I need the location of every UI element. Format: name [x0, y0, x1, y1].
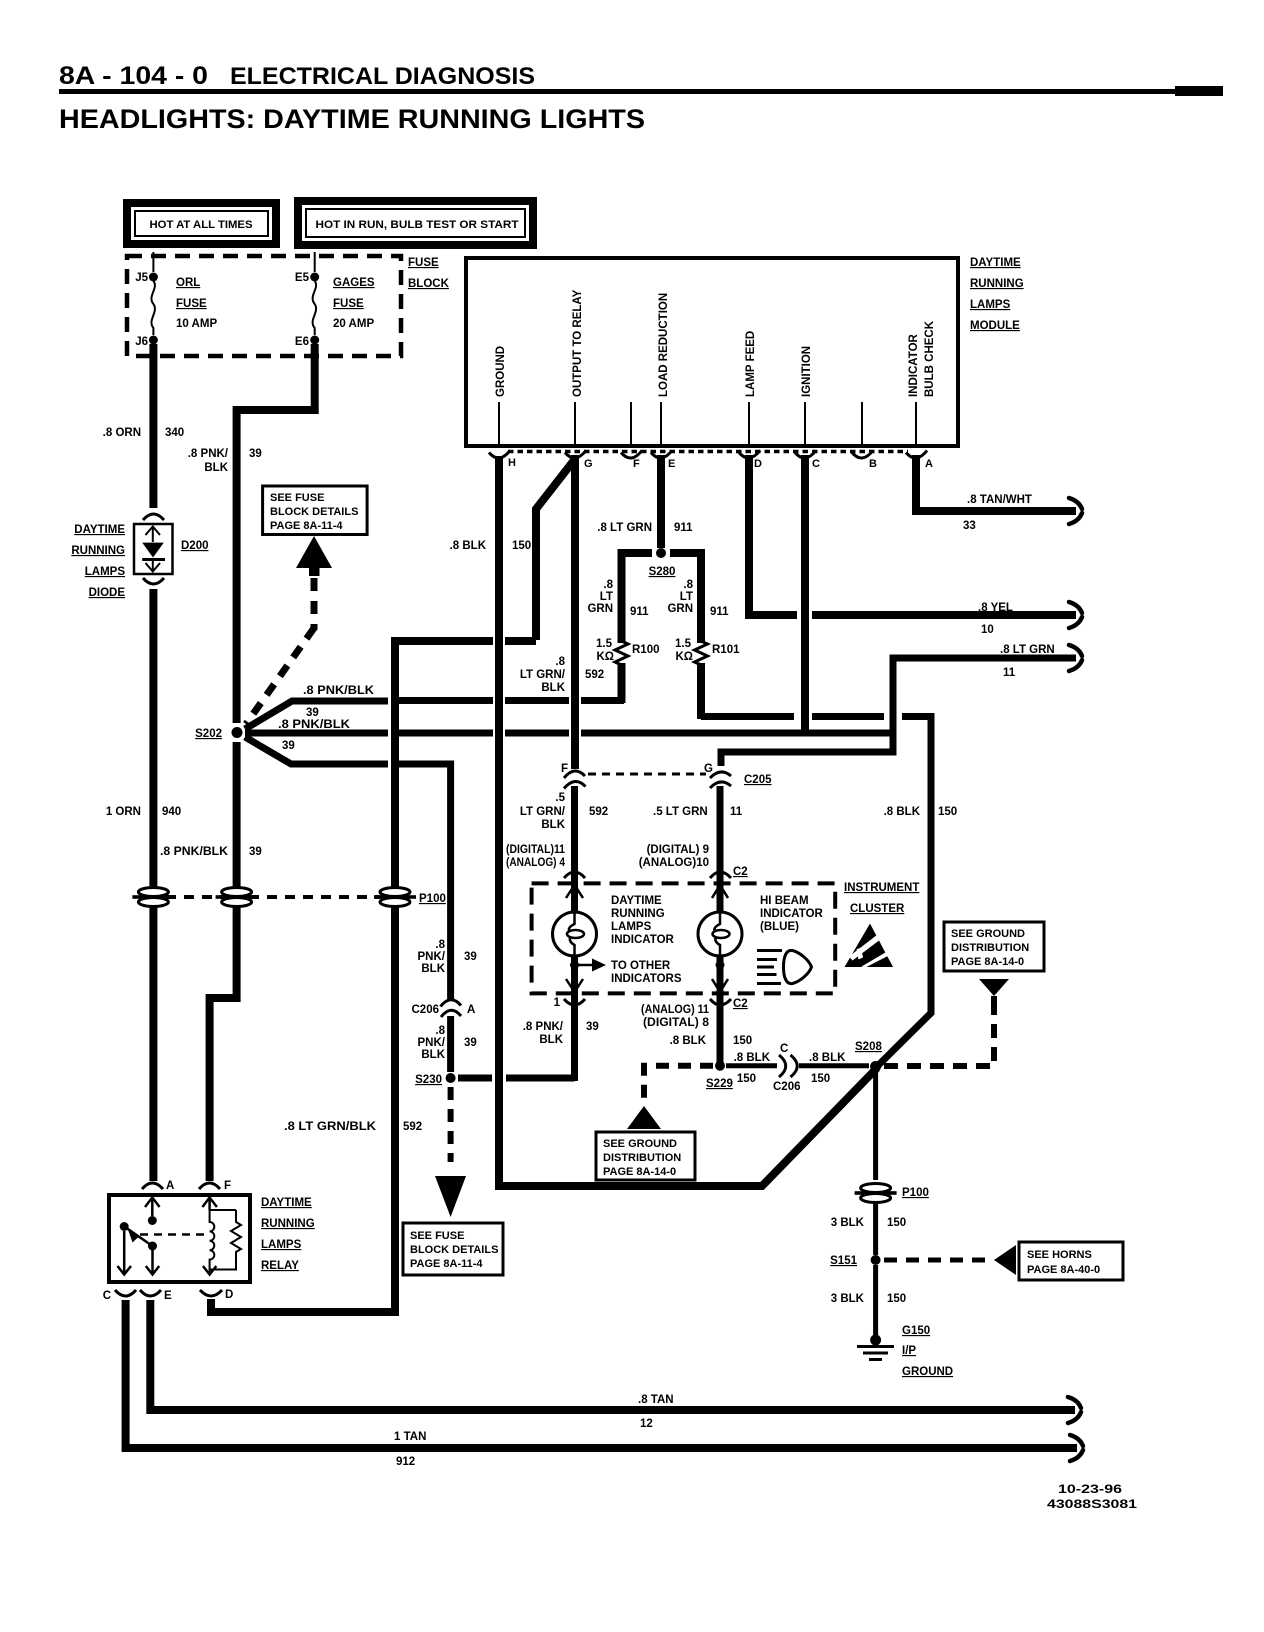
- svg-text:D200: D200: [181, 540, 209, 552]
- svg-text:PAGE 8A-40-0: PAGE 8A-40-0: [1027, 1264, 1100, 1276]
- svg-text:HI BEAM: HI BEAM: [760, 895, 809, 907]
- svg-text:PNK/: PNK/: [418, 951, 446, 963]
- svg-text:1 TAN: 1 TAN: [394, 1431, 426, 1443]
- svg-text:C2: C2: [733, 866, 748, 878]
- svg-text:.5 LT GRN: .5 LT GRN: [653, 806, 708, 818]
- svg-text:150: 150: [938, 806, 957, 818]
- svg-text:DISTRIBUTION: DISTRIBUTION: [603, 1152, 681, 1164]
- svg-text:10: 10: [981, 624, 994, 636]
- svg-text:LT GRN/: LT GRN/: [520, 806, 566, 818]
- svg-text:INDICATOR: INDICATOR: [611, 934, 675, 946]
- svg-text:MODULE: MODULE: [970, 320, 1020, 332]
- svg-text:39: 39: [586, 1021, 599, 1033]
- svg-text:20 AMP: 20 AMP: [333, 318, 374, 330]
- svg-text:S208: S208: [855, 1041, 882, 1053]
- svg-text:DAYTIME: DAYTIME: [74, 524, 125, 536]
- svg-text:S280: S280: [649, 566, 676, 578]
- svg-text:33: 33: [963, 520, 976, 532]
- svg-text:E: E: [164, 1290, 172, 1302]
- svg-text:F: F: [633, 458, 640, 470]
- svg-text:J5: J5: [135, 272, 148, 284]
- svg-text:150: 150: [733, 1035, 752, 1047]
- svg-text:592: 592: [403, 1121, 422, 1133]
- svg-text:.8 PNK/BLK: .8 PNK/BLK: [278, 719, 351, 731]
- svg-text:ELECTRICAL DIAGNOSIS: ELECTRICAL DIAGNOSIS: [230, 63, 535, 90]
- svg-text:(ANALOG) 4: (ANALOG) 4: [506, 857, 566, 869]
- svg-text:CLUSTER: CLUSTER: [850, 903, 905, 915]
- svg-text:LT: LT: [680, 591, 693, 603]
- svg-text:.8 PNK/BLK: .8 PNK/BLK: [160, 846, 229, 858]
- svg-text:DIODE: DIODE: [89, 587, 126, 599]
- svg-text:IGNITION: IGNITION: [801, 346, 813, 397]
- svg-text:DISTRIBUTION: DISTRIBUTION: [951, 942, 1029, 954]
- svg-text:.8 BLK: .8 BLK: [450, 540, 487, 552]
- svg-text:G: G: [704, 763, 713, 775]
- svg-text:592: 592: [589, 806, 608, 818]
- svg-text:LOAD REDUCTION: LOAD REDUCTION: [658, 293, 670, 397]
- svg-text:PAGE 8A-14-0: PAGE 8A-14-0: [603, 1166, 676, 1178]
- svg-text:BLK: BLK: [421, 1049, 445, 1061]
- svg-text:GRN: GRN: [667, 603, 693, 615]
- svg-text:HOT IN RUN, BULB TEST OR START: HOT IN RUN, BULB TEST OR START: [316, 219, 519, 231]
- svg-text:E: E: [668, 458, 675, 470]
- svg-text:ORL: ORL: [176, 277, 200, 289]
- svg-text:1 ORN: 1 ORN: [106, 806, 141, 818]
- svg-text:INDICATOR: INDICATOR: [908, 333, 920, 397]
- svg-text:.8 TAN: .8 TAN: [638, 1394, 674, 1406]
- svg-text:B: B: [869, 458, 877, 470]
- svg-text:RUNNING: RUNNING: [261, 1218, 315, 1230]
- svg-text:F: F: [224, 1180, 231, 1192]
- svg-text:150: 150: [887, 1217, 906, 1229]
- svg-text:BLK: BLK: [421, 963, 445, 975]
- svg-text:(DIGITAL)11: (DIGITAL)11: [506, 844, 566, 856]
- svg-text:P100: P100: [419, 893, 446, 905]
- svg-text:A: A: [467, 1004, 475, 1016]
- svg-text:39: 39: [464, 951, 477, 963]
- svg-text:BLK: BLK: [541, 682, 565, 694]
- svg-text:I/P: I/P: [902, 1345, 916, 1357]
- svg-text:10-23-96: 10-23-96: [1058, 1482, 1122, 1496]
- svg-text:RUNNING: RUNNING: [71, 545, 125, 557]
- svg-text:LAMP FEED: LAMP FEED: [745, 331, 757, 397]
- svg-text:BLK: BLK: [541, 819, 565, 831]
- svg-text:HEADLIGHTS: DAYTIME RUNNING LI: HEADLIGHTS: DAYTIME RUNNING LIGHTS: [59, 104, 645, 134]
- svg-text:39: 39: [306, 707, 319, 719]
- svg-text:E6: E6: [295, 336, 309, 348]
- svg-text:GROUND: GROUND: [902, 1366, 953, 1378]
- svg-text:11: 11: [730, 806, 743, 818]
- svg-text:LAMPS: LAMPS: [970, 299, 1011, 311]
- svg-text:.8 BLK: .8 BLK: [734, 1052, 771, 1064]
- svg-text:R101: R101: [712, 644, 740, 656]
- svg-text:LAMPS: LAMPS: [261, 1239, 302, 1251]
- svg-text:(ANALOG)10: (ANALOG)10: [639, 857, 709, 869]
- svg-text:911: 911: [674, 522, 693, 534]
- svg-text:C206: C206: [773, 1081, 801, 1093]
- svg-text:.8 TAN/WHT: .8 TAN/WHT: [967, 494, 1032, 506]
- svg-text:SEE GROUND: SEE GROUND: [951, 928, 1025, 940]
- svg-text:PAGE 8A-11-4: PAGE 8A-11-4: [270, 520, 343, 532]
- svg-text:150: 150: [512, 540, 531, 552]
- svg-text:940: 940: [162, 806, 181, 818]
- svg-text:.8: .8: [683, 579, 693, 591]
- svg-text:D: D: [225, 1289, 233, 1301]
- svg-text:11: 11: [1003, 667, 1016, 679]
- svg-text:BLK: BLK: [204, 462, 228, 474]
- svg-text:GROUND: GROUND: [495, 346, 507, 397]
- svg-text:PAGE 8A-14-0: PAGE 8A-14-0: [951, 956, 1024, 968]
- svg-text:KΩ: KΩ: [675, 651, 693, 663]
- svg-text:PAGE 8A-11-4: PAGE 8A-11-4: [410, 1258, 483, 1270]
- svg-text:39: 39: [464, 1037, 477, 1049]
- svg-text:C: C: [812, 458, 820, 470]
- svg-text:FUSE: FUSE: [176, 298, 207, 310]
- svg-text:RUNNING: RUNNING: [611, 908, 665, 920]
- svg-text:D: D: [754, 458, 762, 470]
- svg-text:PNK/: PNK/: [418, 1037, 446, 1049]
- svg-text:592: 592: [585, 669, 604, 681]
- svg-text:RELAY: RELAY: [261, 1260, 299, 1272]
- svg-text:GAGES: GAGES: [333, 277, 375, 289]
- svg-text:BLOCK DETAILS: BLOCK DETAILS: [270, 506, 358, 518]
- svg-text:150: 150: [737, 1073, 756, 1085]
- svg-text:F: F: [561, 763, 568, 775]
- svg-text:RUNNING: RUNNING: [970, 278, 1024, 290]
- svg-text:12: 12: [640, 1418, 653, 1430]
- svg-text:LT: LT: [600, 591, 613, 603]
- svg-text:.8 LT GRN/BLK: .8 LT GRN/BLK: [284, 1121, 377, 1133]
- svg-text:BLOCK DETAILS: BLOCK DETAILS: [410, 1244, 498, 1256]
- svg-text:(ANALOG) 11: (ANALOG) 11: [641, 1004, 710, 1016]
- svg-text:.8: .8: [435, 1025, 445, 1037]
- svg-text:C206: C206: [412, 1004, 440, 1016]
- svg-text:.5: .5: [555, 792, 565, 804]
- svg-text:A: A: [166, 1180, 174, 1192]
- svg-text:R100: R100: [632, 644, 660, 656]
- svg-text:OUTPUT TO RELAY: OUTPUT TO RELAY: [572, 289, 584, 397]
- svg-text:SEE FUSE: SEE FUSE: [270, 492, 324, 504]
- svg-text:INSTRUMENT: INSTRUMENT: [844, 882, 919, 894]
- svg-text:(DIGITAL) 9: (DIGITAL) 9: [647, 844, 709, 856]
- svg-text:10 AMP: 10 AMP: [176, 318, 217, 330]
- svg-text:C2: C2: [733, 998, 748, 1010]
- svg-text:HOT AT ALL TIMES: HOT AT ALL TIMES: [150, 219, 253, 231]
- svg-text:H: H: [508, 457, 516, 469]
- svg-text:.8 ORN: .8 ORN: [103, 427, 141, 439]
- svg-text:LAMPS: LAMPS: [85, 566, 126, 578]
- svg-text:(BLUE): (BLUE): [760, 921, 799, 933]
- svg-text:FUSE: FUSE: [333, 298, 364, 310]
- svg-text:DAYTIME: DAYTIME: [970, 257, 1021, 269]
- svg-text:A: A: [925, 458, 933, 470]
- svg-text:J6: J6: [135, 336, 148, 348]
- svg-text:.8: .8: [603, 579, 613, 591]
- svg-text:.8 PNK/: .8 PNK/: [188, 448, 229, 460]
- svg-text:.8 YEL: .8 YEL: [978, 602, 1013, 614]
- svg-text:.8 BLK: .8 BLK: [809, 1052, 846, 1064]
- svg-text:S229: S229: [706, 1078, 733, 1090]
- svg-text:3 BLK: 3 BLK: [831, 1217, 865, 1229]
- svg-text:INDICATORS: INDICATORS: [611, 973, 682, 985]
- svg-text:3 BLK: 3 BLK: [831, 1293, 865, 1305]
- svg-text:P100: P100: [902, 1187, 929, 1199]
- svg-text:39: 39: [282, 740, 295, 752]
- svg-text:1.5: 1.5: [596, 638, 613, 650]
- svg-text:SEE HORNS: SEE HORNS: [1027, 1249, 1092, 1261]
- svg-text:DAYTIME: DAYTIME: [611, 895, 662, 907]
- svg-text:.8 PNK/BLK: .8 PNK/BLK: [303, 685, 375, 697]
- svg-text:BLOCK: BLOCK: [408, 278, 450, 290]
- svg-text:39: 39: [249, 448, 262, 460]
- svg-text:GRN: GRN: [587, 603, 613, 615]
- svg-text:DAYTIME: DAYTIME: [261, 1197, 312, 1209]
- svg-text:INDICATOR: INDICATOR: [760, 908, 824, 920]
- svg-text:BULB CHECK: BULB CHECK: [924, 320, 936, 397]
- svg-text:150: 150: [887, 1293, 906, 1305]
- svg-text:.8 BLK: .8 BLK: [884, 806, 921, 818]
- svg-text:C: C: [103, 1290, 111, 1302]
- svg-text:911: 911: [630, 606, 649, 618]
- svg-text:.8 PNK/: .8 PNK/: [523, 1021, 564, 1033]
- svg-text:150: 150: [811, 1073, 830, 1085]
- svg-text:LAMPS: LAMPS: [611, 921, 652, 933]
- svg-text:FUSE: FUSE: [408, 257, 439, 269]
- svg-text:8A - 104 - 0: 8A - 104 - 0: [59, 62, 208, 90]
- svg-text:LT GRN/: LT GRN/: [520, 669, 566, 681]
- svg-text:C: C: [780, 1043, 788, 1055]
- svg-text:S151: S151: [830, 1255, 857, 1267]
- svg-text:S202: S202: [195, 728, 222, 740]
- svg-text:TO OTHER: TO OTHER: [611, 960, 671, 972]
- svg-text:E5: E5: [295, 272, 310, 284]
- svg-text:911: 911: [710, 606, 729, 618]
- svg-text:.8 BLK: .8 BLK: [670, 1035, 707, 1047]
- svg-text:1.5: 1.5: [675, 638, 692, 650]
- svg-text:BLK: BLK: [539, 1034, 563, 1046]
- svg-text:.8: .8: [435, 939, 445, 951]
- svg-text:.8: .8: [555, 656, 565, 668]
- svg-text:1: 1: [554, 997, 561, 1009]
- svg-text:C205: C205: [744, 774, 772, 786]
- svg-text:(DIGITAL) 8: (DIGITAL) 8: [643, 1017, 710, 1029]
- svg-text:912: 912: [396, 1456, 415, 1468]
- svg-text:KΩ: KΩ: [596, 651, 614, 663]
- svg-text:.8 LT GRN: .8 LT GRN: [1000, 644, 1055, 656]
- svg-text:G150: G150: [902, 1325, 930, 1337]
- svg-text:S230: S230: [415, 1074, 442, 1086]
- svg-text:340: 340: [165, 427, 184, 439]
- svg-text:SEE GROUND: SEE GROUND: [603, 1138, 677, 1150]
- svg-text:.8 LT GRN: .8 LT GRN: [597, 522, 652, 534]
- svg-text:G: G: [584, 458, 593, 470]
- svg-text:SEE FUSE: SEE FUSE: [410, 1230, 464, 1242]
- svg-text:43088S3081: 43088S3081: [1047, 1497, 1137, 1511]
- svg-text:39: 39: [249, 846, 262, 858]
